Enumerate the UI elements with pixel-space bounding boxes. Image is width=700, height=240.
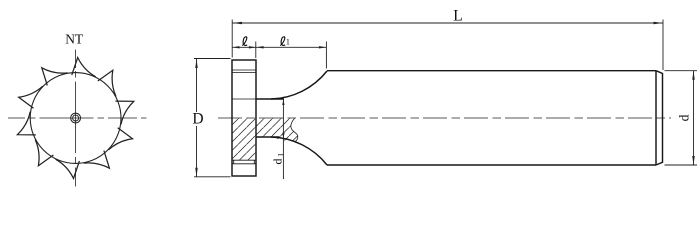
- svg-text:1: 1: [277, 153, 286, 157]
- svg-text:1: 1: [286, 36, 290, 46]
- svg-text:L: L: [453, 8, 462, 25]
- svg-text:D: D: [192, 110, 203, 127]
- svg-text:d: d: [677, 114, 692, 121]
- svg-text:d: d: [271, 158, 285, 164]
- svg-text:NT: NT: [65, 32, 84, 47]
